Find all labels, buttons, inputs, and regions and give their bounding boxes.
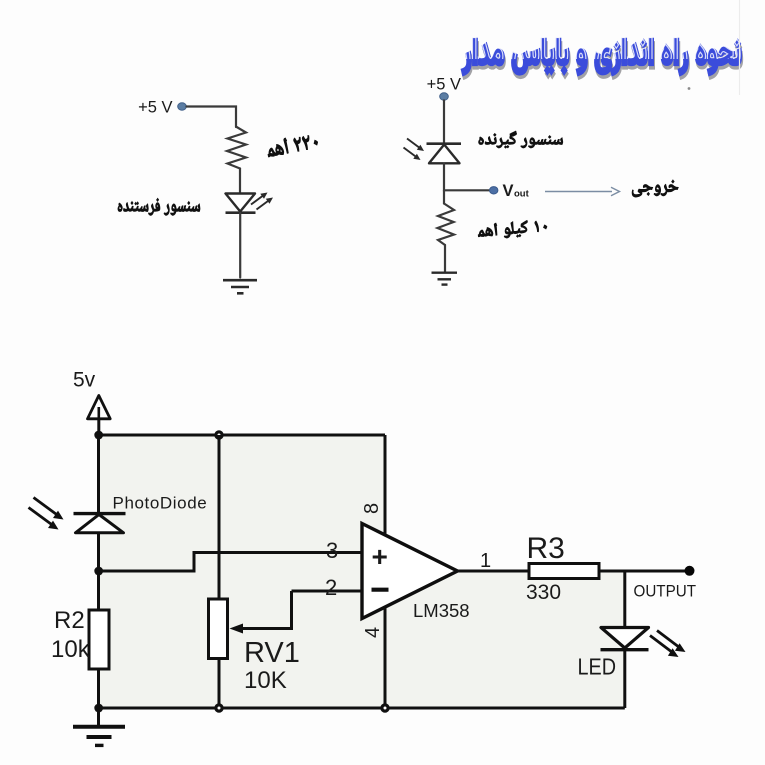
resistor R2 10k — [89, 571, 109, 708]
svg-text:RV1: RV1 — [244, 637, 300, 669]
pin 4 wire — [384, 608, 387, 708]
junction node pin4/bottom rail (ring) — [382, 705, 388, 711]
svg-text:PhotoDiode: PhotoDiode — [113, 494, 208, 513]
svg-text:OUTPUT: OUTPUT — [634, 583, 697, 601]
label Vout — [503, 182, 530, 200]
wire to op-amp pin 3 — [99, 553, 363, 572]
label 220 ohm (Persian) — [266, 132, 319, 157]
ground (receiver) — [432, 273, 458, 285]
power flag 5v — [73, 369, 110, 436]
svg-text:+: + — [372, 541, 388, 572]
svg-text:R2: R2 — [54, 607, 85, 634]
title: نحوه راه اندازی و بایاس مدار (blue heading with shadow) — [461, 38, 742, 79]
resistor R1 220 ohm zigzag — [227, 127, 246, 169]
photodiode incoming light arrows — [29, 498, 64, 530]
svg-text:10k: 10k — [51, 636, 91, 663]
wire OUTPUT branch down to LED — [623, 571, 626, 627]
label سنسور گیرنده — [479, 131, 563, 148]
node Vout (blue dot) — [490, 187, 498, 194]
junction node at 5v/top rail — [94, 431, 103, 440]
wire from +5V to resistor R1 — [187, 107, 237, 128]
svg-text:1: 1 — [480, 550, 491, 572]
wire LED to ground — [239, 213, 241, 278]
svg-text:+5 V: +5 V — [427, 76, 461, 94]
node OUTPUT terminal — [685, 566, 695, 576]
wire resistor to LED — [239, 169, 241, 194]
op-amp U1 LM358 triangle — [362, 524, 458, 619]
wire Vout junction to 10k resistor — [443, 190, 445, 203]
resistor R3 330 body — [529, 564, 599, 579]
wire photodiode to junction — [97, 533, 100, 571]
op-amp - input marker — [372, 588, 389, 592]
LED indicator diode — [601, 628, 649, 650]
label 10 kilo ohm (Persian) — [477, 219, 547, 241]
wire top rail to photodiode — [97, 435, 100, 513]
svg-text:2: 2 — [325, 575, 337, 600]
bottom rail wire — [99, 707, 625, 710]
node +5V supply (transmitter) — [138, 99, 186, 117]
svg-text:R3: R3 — [527, 532, 565, 565]
svg-text:+5 V: +5 V — [138, 99, 172, 117]
LED emission arrows — [251, 193, 273, 210]
label سنسور فرستنده — [118, 198, 200, 215]
svg-text:10K: 10K — [244, 667, 287, 694]
pin 1 output wire — [458, 570, 530, 573]
svg-text:330: 330 — [526, 581, 561, 604]
RV1 wiper arrow and wire to pin 2 — [230, 591, 292, 634]
wire +5V to photodiode — [443, 100, 445, 143]
ground (main) — [73, 708, 125, 745]
junction node top rail / RV1 (ring) — [216, 432, 222, 438]
svg-text:4: 4 — [362, 627, 384, 638]
svg-text:out: out — [514, 189, 530, 200]
label خروجی — [632, 180, 678, 197]
svg-text:3: 3 — [326, 538, 338, 563]
junction node ground/bottom rail — [94, 704, 103, 713]
resistor 10 kilo-ohm zigzag — [438, 204, 455, 246]
svg-text:V: V — [503, 182, 514, 200]
wire R3 to OUTPUT — [599, 570, 686, 573]
junction node photodiode/R2/pin3 — [94, 567, 103, 576]
node +5V supply (receiver) — [427, 76, 461, 101]
arrow from Vout to خروجی — [545, 187, 620, 196]
wire photodiode to Vout node — [444, 164, 489, 191]
svg-text:8: 8 — [361, 503, 383, 514]
svg-text:LM358: LM358 — [413, 600, 470, 621]
photodiode D1 (PhotoDiode) — [74, 514, 126, 533]
top rail wire — [99, 434, 386, 437]
LED transmitter diode (سنسور فرستنده) — [226, 194, 256, 213]
svg-text:LED: LED — [578, 654, 617, 680]
svg-text:5v: 5v — [73, 369, 96, 392]
photodiode receiver (سنسور گیرنده) — [427, 144, 462, 164]
wire op-amp pin 2 — [292, 590, 363, 593]
junction node RV1/bottom rail (ring) — [216, 705, 222, 711]
pin 8 wire — [384, 435, 387, 535]
photodiode incoming light arrows — [404, 139, 425, 161]
ground (transmitter) — [223, 280, 257, 293]
potentiometer RV1 body — [209, 435, 228, 708]
LED emission arrows — [650, 631, 686, 658]
wire LED to bottom rail — [623, 651, 626, 708]
wire resistor to ground — [444, 245, 446, 272]
